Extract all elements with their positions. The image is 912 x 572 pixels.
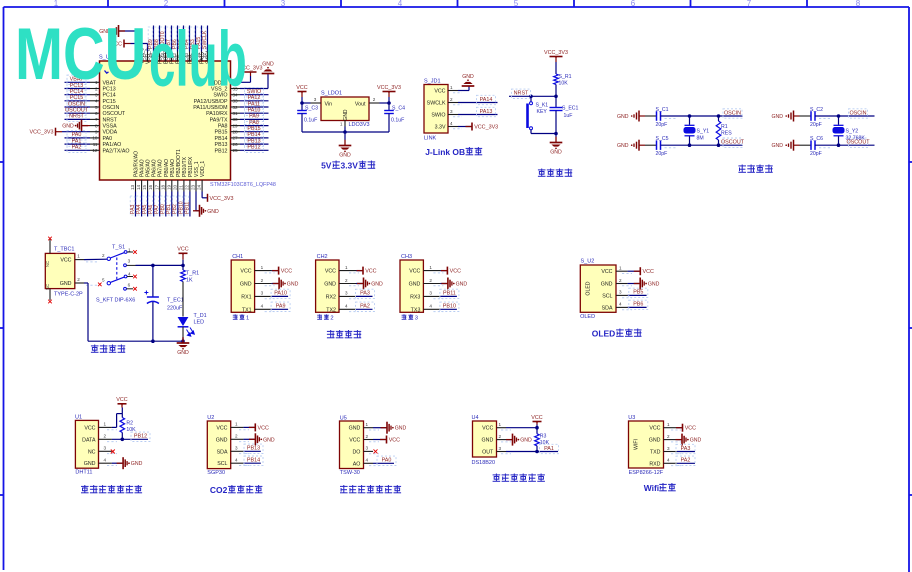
svg-text:PA7: PA7 [154, 204, 160, 214]
svg-text:VCC: VCC [258, 425, 269, 431]
svg-text:club: club [149, 15, 247, 102]
svg-text:GND: GND [617, 143, 629, 149]
svg-text:4: 4 [366, 458, 369, 463]
svg-text:1: 1 [235, 422, 238, 427]
svg-text:GND: GND [617, 114, 629, 120]
svg-text:NRST: NRST [103, 117, 118, 123]
svg-text:LDO3V3: LDO3V3 [349, 122, 370, 128]
svg-text:CO2: CO2 [210, 485, 228, 495]
svg-text:PC15: PC15 [103, 99, 116, 105]
svg-text:PA2/TX/AO: PA2/TX/AO [103, 148, 130, 154]
svg-text:10K: 10K [559, 81, 569, 87]
svg-text:2: 2 [104, 434, 107, 439]
svg-text:SWIO: SWIO [431, 113, 445, 119]
svg-text:ESP8266-12F: ESP8266-12F [629, 470, 664, 476]
svg-text:32.768K: 32.768K [846, 136, 866, 142]
svg-text:PA1/AO: PA1/AO [103, 142, 122, 148]
svg-text:4: 4 [128, 272, 131, 277]
svg-text:3: 3 [261, 291, 264, 296]
svg-text:CH1: CH1 [232, 254, 243, 260]
svg-text:PB13: PB13 [247, 446, 260, 452]
svg-text:PB11: PB11 [184, 202, 190, 214]
svg-text:PA9: PA9 [276, 304, 286, 310]
svg-text:Vin: Vin [325, 102, 333, 108]
svg-text:GND: GND [771, 143, 783, 149]
svg-text:2: 2 [619, 278, 622, 283]
svg-text:PA14: PA14 [480, 97, 493, 103]
svg-text:5: 5 [514, 0, 519, 8]
svg-text:3: 3 [429, 291, 432, 296]
svg-text:R2: R2 [126, 420, 133, 426]
svg-text:GND: GND [371, 282, 383, 288]
svg-text:22: 22 [185, 184, 190, 190]
svg-text:7: 7 [747, 0, 752, 8]
svg-text:SCL: SCL [217, 461, 227, 467]
svg-text:VCC: VCC [601, 269, 612, 275]
svg-text:1: 1 [104, 422, 107, 427]
svg-text:3: 3 [128, 258, 131, 263]
svg-text:PB2: PB2 [172, 204, 178, 214]
svg-text:1: 1 [366, 422, 369, 427]
svg-text:R1: R1 [721, 124, 728, 130]
svg-text:VCC: VCC [60, 258, 71, 264]
svg-text:PA5: PA5 [142, 204, 148, 214]
svg-text:S_C6: S_C6 [810, 136, 823, 142]
svg-text:NRST: NRST [69, 114, 84, 120]
svg-text:2: 2 [345, 278, 348, 283]
svg-text:GND: GND [263, 437, 275, 443]
svg-text:GND: GND [207, 209, 219, 215]
svg-text:PA13: PA13 [480, 109, 493, 115]
svg-text:T_R1: T_R1 [186, 271, 199, 277]
svg-text:PA2: PA2 [360, 304, 370, 310]
svg-text:VCC: VCC [450, 269, 461, 275]
svg-text:PB14: PB14 [215, 136, 228, 142]
svg-text:GND: GND [324, 282, 336, 288]
svg-text:GND: GND [395, 426, 407, 432]
svg-text:VSS_1: VSS_1 [194, 161, 200, 177]
svg-text:2: 2 [499, 434, 502, 439]
svg-text:PA3: PA3 [360, 291, 370, 297]
svg-text:3: 3 [104, 446, 107, 451]
svg-text:KEY: KEY [537, 109, 548, 115]
svg-text:PA10: PA10 [274, 291, 287, 297]
svg-text:VSSA: VSSA [103, 124, 118, 130]
svg-text:2: 2 [373, 97, 376, 102]
svg-text:GND: GND [131, 461, 143, 467]
svg-text:VCC: VCC [531, 415, 542, 421]
svg-text:1: 1 [667, 422, 670, 427]
svg-text:PB14: PB14 [247, 458, 260, 464]
svg-text:SWCLK: SWCLK [427, 101, 446, 107]
svg-text:2: 2 [261, 278, 264, 283]
svg-text:4: 4 [235, 458, 238, 463]
svg-text:1: 1 [246, 316, 249, 322]
svg-text:VCC: VCC [389, 438, 400, 444]
svg-text:TYPE-C-2P: TYPE-C-2P [54, 291, 83, 297]
svg-text:GND: GND [520, 438, 532, 444]
svg-text:PA3: PA3 [681, 446, 691, 452]
svg-text:20pF: 20pF [656, 122, 668, 128]
svg-text:GND: GND [409, 282, 421, 288]
svg-text:S_C3: S_C3 [305, 106, 318, 112]
svg-text:3: 3 [499, 446, 502, 451]
svg-text:U1: U1 [75, 415, 82, 421]
svg-text:J-Link OB: J-Link OB [425, 147, 465, 157]
svg-text:4: 4 [104, 458, 107, 463]
svg-text:Wifi: Wifi [644, 483, 659, 493]
svg-text:VCC: VCC [434, 89, 445, 95]
svg-text:OSCIN: OSCIN [849, 110, 866, 116]
svg-text:SDA: SDA [217, 449, 228, 455]
svg-text:S_C1: S_C1 [656, 107, 669, 113]
svg-text:RXD: RXD [649, 461, 660, 467]
svg-text:4: 4 [345, 304, 348, 309]
svg-text:1K: 1K [186, 278, 193, 284]
svg-text:3.3V: 3.3V [341, 161, 359, 171]
svg-text:4: 4 [619, 302, 622, 307]
svg-text:PA2: PA2 [681, 458, 691, 464]
svg-text:GND: GND [262, 61, 274, 67]
svg-text:RX1: RX1 [241, 294, 251, 300]
svg-text:PA10/RX: PA10/RX [206, 111, 228, 117]
svg-text:13: 13 [130, 184, 135, 190]
svg-text:OLED: OLED [586, 281, 592, 295]
svg-text:3: 3 [667, 446, 670, 451]
svg-text:23: 23 [191, 184, 196, 190]
svg-text:R3: R3 [540, 433, 547, 439]
svg-text:GND: GND [456, 282, 468, 288]
svg-text:18: 18 [160, 184, 165, 190]
svg-text:GND: GND [601, 282, 613, 288]
svg-text:2: 2 [77, 277, 80, 282]
svg-text:220uF: 220uF [167, 306, 183, 312]
svg-text:VCC_3V3: VCC_3V3 [377, 85, 401, 91]
svg-text:3: 3 [314, 97, 317, 102]
svg-text:OSCIN: OSCIN [103, 105, 120, 111]
svg-text:AO: AO [353, 461, 361, 467]
svg-text:GND: GND [482, 438, 494, 444]
svg-text:17: 17 [154, 184, 159, 190]
svg-text:GND: GND [550, 149, 562, 155]
svg-text:VCC_3V3: VCC_3V3 [544, 50, 568, 56]
svg-text:T_S1: T_S1 [112, 245, 125, 251]
svg-text:3.3V: 3.3V [435, 125, 446, 131]
svg-text:VCC: VCC [649, 426, 660, 432]
svg-text:LINK: LINK [424, 136, 437, 142]
svg-text:GND: GND [349, 426, 361, 432]
svg-text:1uF: 1uF [564, 113, 573, 119]
svg-text:DHT11: DHT11 [75, 470, 92, 476]
svg-text:3: 3 [415, 316, 418, 322]
svg-text:U5: U5 [340, 415, 347, 421]
svg-text:PA3/RX/AO: PA3/RX/AO [134, 151, 140, 177]
svg-text:VCC: VCC [325, 269, 336, 275]
svg-text:VCC: VCC [216, 425, 227, 431]
svg-text:PA3: PA3 [130, 204, 136, 214]
svg-text:VCC: VCC [240, 269, 251, 275]
svg-text:3: 3 [235, 446, 238, 451]
svg-text:GND: GND [84, 461, 96, 467]
svg-text:1: 1 [77, 253, 80, 258]
svg-text:0.1uF: 0.1uF [304, 118, 317, 124]
svg-text:NC: NC [88, 449, 96, 455]
svg-text:GND: GND [343, 109, 349, 121]
svg-text:PA8: PA8 [218, 124, 228, 130]
svg-text:4: 4 [398, 0, 403, 8]
svg-text:OSCOUT: OSCOUT [103, 111, 126, 117]
svg-text:2: 2 [366, 434, 369, 439]
svg-text:NC: NC [45, 261, 50, 267]
svg-text:OSCIN: OSCIN [724, 110, 741, 116]
svg-text:GND: GND [648, 282, 660, 288]
svg-text:S_Y1: S_Y1 [697, 129, 710, 135]
svg-text:2: 2 [429, 278, 432, 283]
svg-text:RX2: RX2 [326, 294, 336, 300]
svg-text:VCC: VCC [281, 269, 292, 275]
svg-text:Vout: Vout [355, 102, 366, 108]
svg-text:NRST: NRST [514, 91, 529, 97]
svg-text:PB12: PB12 [215, 148, 228, 154]
svg-text:3: 3 [450, 109, 453, 114]
svg-text:SGP30: SGP30 [207, 470, 225, 476]
svg-text:VCC: VCC [349, 438, 360, 444]
svg-text:PB2/BOOT1: PB2/BOOT1 [176, 149, 182, 177]
svg-text:TX1: TX1 [242, 307, 252, 313]
svg-text:19: 19 [166, 184, 171, 190]
svg-text:U4: U4 [472, 415, 479, 421]
svg-text:PB12: PB12 [134, 434, 147, 440]
svg-text:PA8: PA8 [249, 120, 259, 126]
svg-text:GND: GND [62, 124, 74, 130]
svg-text:SDA: SDA [602, 305, 613, 311]
svg-text:DO: DO [352, 449, 360, 455]
svg-text:SWIO: SWIO [247, 89, 261, 95]
svg-text:4: 4 [667, 458, 670, 463]
svg-text:PA9/TX: PA9/TX [210, 117, 228, 123]
svg-text:GND: GND [339, 152, 351, 158]
svg-text:1: 1 [345, 265, 348, 270]
svg-text:GND: GND [240, 282, 252, 288]
svg-text:S_U2: S_U2 [581, 259, 595, 265]
svg-text:S_EC1: S_EC1 [562, 106, 579, 112]
svg-text:3: 3 [619, 290, 622, 295]
svg-text:8: 8 [856, 0, 861, 8]
svg-text:S_C5: S_C5 [656, 136, 669, 142]
svg-text:6: 6 [631, 0, 636, 8]
svg-text:VCC_3V3: VCC_3V3 [474, 125, 498, 131]
svg-text:VCC: VCC [177, 247, 188, 253]
svg-text:PA5/AO: PA5/AO [146, 159, 152, 177]
svg-text:S_LDO1: S_LDO1 [321, 91, 342, 97]
svg-text:MCU: MCU [15, 12, 146, 94]
svg-text:6: 6 [128, 282, 131, 287]
svg-text:OSCOUT: OSCOUT [721, 140, 745, 146]
svg-text:GND: GND [216, 437, 228, 443]
svg-text:PB15: PB15 [215, 130, 228, 136]
svg-text:PB10: PB10 [443, 304, 456, 310]
svg-text:VDD_1: VDD_1 [200, 161, 206, 177]
svg-text:T_TBC1: T_TBC1 [54, 247, 74, 253]
svg-text:U3: U3 [628, 415, 635, 421]
svg-text:VCC: VCC [84, 425, 95, 431]
svg-text:PB11: PB11 [443, 291, 456, 297]
svg-text:15: 15 [142, 184, 147, 190]
svg-text:VCC: VCC [482, 426, 493, 432]
svg-text:4: 4 [429, 304, 432, 309]
svg-text:2: 2 [102, 253, 105, 258]
svg-text:S_R1: S_R1 [559, 74, 572, 80]
svg-text:CH3: CH3 [401, 254, 412, 260]
svg-text:VCC: VCC [116, 397, 127, 403]
svg-text:PA0: PA0 [382, 458, 392, 464]
svg-text:3: 3 [366, 446, 369, 451]
svg-text:1: 1 [261, 265, 264, 270]
svg-text:14: 14 [136, 184, 141, 190]
svg-text:1: 1 [619, 266, 622, 271]
svg-text:PA2: PA2 [72, 145, 82, 151]
svg-text:4: 4 [450, 121, 453, 126]
svg-text:OLED: OLED [592, 329, 615, 339]
svg-text:2: 2 [667, 434, 670, 439]
svg-text:PB11/RX: PB11/RX [188, 156, 194, 177]
svg-text:20pF: 20pF [810, 151, 822, 157]
svg-text:8M: 8M [697, 136, 704, 142]
svg-text:3: 3 [281, 0, 286, 8]
svg-text:PA11/USB/DM: PA11/USB/DM [193, 105, 227, 111]
svg-text:WIFI: WIFI [634, 439, 640, 450]
svg-text:T_D1: T_D1 [194, 313, 207, 319]
svg-text:NC: NC [45, 284, 50, 290]
svg-text:0.1uF: 0.1uF [391, 118, 404, 124]
svg-text:TX3: TX3 [411, 307, 421, 313]
svg-text:GND: GND [771, 114, 783, 120]
svg-text:PA7/AO: PA7/AO [158, 159, 164, 177]
svg-text:LED: LED [194, 320, 205, 326]
svg-text:2: 2 [235, 434, 238, 439]
svg-text:TX2: TX2 [326, 307, 336, 313]
svg-text:PB13: PB13 [215, 142, 228, 148]
svg-text:TSW-30: TSW-30 [340, 470, 360, 476]
svg-text:RX3: RX3 [410, 294, 420, 300]
svg-text:VCC: VCC [365, 269, 376, 275]
svg-text:PB12: PB12 [247, 145, 260, 151]
svg-text:GND: GND [177, 350, 189, 356]
svg-text:SCL: SCL [602, 293, 612, 299]
svg-text:CH2: CH2 [317, 254, 328, 260]
svg-text:U2: U2 [207, 415, 214, 421]
svg-text:S_K1: S_K1 [536, 103, 549, 109]
svg-text:S_C4: S_C4 [392, 106, 405, 112]
svg-text:OUT: OUT [482, 450, 494, 456]
svg-text:20: 20 [172, 184, 177, 190]
svg-text:5: 5 [102, 277, 105, 282]
svg-text:T_EC1: T_EC1 [167, 298, 184, 304]
svg-text:S_KFT DIP-6X6: S_KFT DIP-6X6 [96, 298, 135, 304]
svg-text:21: 21 [179, 184, 184, 190]
svg-text:5V: 5V [321, 161, 332, 171]
svg-text:4: 4 [261, 304, 264, 309]
svg-text:VCC: VCC [685, 426, 696, 432]
svg-text:2: 2 [330, 316, 333, 322]
svg-text:2: 2 [164, 0, 169, 8]
svg-text:1: 1 [54, 0, 59, 8]
svg-text:S_C2: S_C2 [810, 107, 823, 113]
svg-text:1: 1 [499, 422, 502, 427]
svg-text:OLED: OLED [580, 314, 595, 320]
svg-text:20pF: 20pF [656, 151, 668, 157]
svg-text:24: 24 [197, 184, 202, 190]
svg-text:VCC: VCC [643, 269, 654, 275]
svg-text:GND: GND [287, 282, 299, 288]
svg-text:STM32F103C8T6_LQFP48: STM32F103C8T6_LQFP48 [210, 182, 276, 188]
svg-text:VCC: VCC [409, 269, 420, 275]
svg-text:S_Y2: S_Y2 [846, 129, 859, 135]
svg-text:RES: RES [721, 131, 732, 137]
svg-text:PA0: PA0 [103, 136, 113, 142]
svg-text:VCC_3V3: VCC_3V3 [30, 130, 54, 136]
svg-text:16: 16 [148, 184, 153, 190]
svg-text:2: 2 [450, 97, 453, 102]
svg-text:VDDA: VDDA [103, 130, 118, 136]
svg-text:PA1: PA1 [544, 446, 554, 452]
svg-text:PB5: PB5 [633, 290, 643, 296]
svg-text:1: 1 [429, 265, 432, 270]
svg-text:1: 1 [450, 85, 453, 90]
svg-text:DS18B20: DS18B20 [472, 460, 496, 466]
svg-text:20pF: 20pF [810, 122, 822, 128]
svg-text:TXD: TXD [650, 450, 661, 456]
svg-text:GND: GND [649, 438, 661, 444]
svg-text:3: 3 [345, 291, 348, 296]
svg-text:GND: GND [60, 281, 72, 287]
svg-text:PB6: PB6 [633, 302, 643, 308]
svg-text:VCC: VCC [296, 85, 307, 91]
svg-text:S_JD1: S_JD1 [424, 79, 441, 85]
svg-text:GND: GND [462, 74, 474, 80]
svg-text:VCC_3V3: VCC_3V3 [210, 196, 234, 202]
svg-text:DATA: DATA [82, 437, 96, 443]
svg-text:GND: GND [690, 438, 702, 444]
